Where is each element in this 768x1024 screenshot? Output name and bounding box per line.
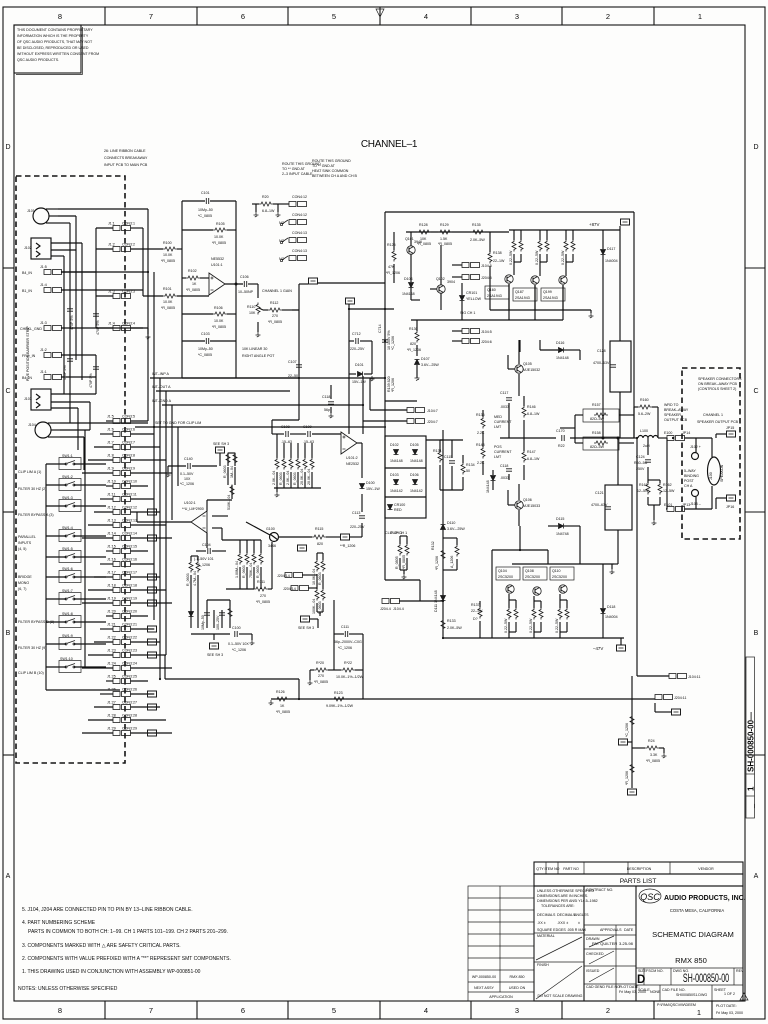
svg-text:VENDOR: VENDOR xyxy=(698,867,714,871)
svg-text:D102: D102 xyxy=(390,443,399,447)
svg-text:JP15: JP15 xyxy=(726,426,734,430)
svg-text:.XXX ±: .XXX ± xyxy=(557,921,568,925)
svg-text:C170: C170 xyxy=(556,429,565,433)
wire from C107 node down xyxy=(272,378,299,420)
svg-text:A: A xyxy=(6,873,11,880)
svg-text:2SA1943: 2SA1943 xyxy=(515,296,530,300)
svg-text:J1:7: J1:7 xyxy=(107,441,114,445)
svg-text:56p–2000V–C0G: 56p–2000V–C0G xyxy=(334,640,362,644)
svg-text:C113: C113 xyxy=(352,511,360,515)
main output wire xyxy=(500,437,634,439)
svg-text:0.22–5W: 0.22–5W xyxy=(504,618,508,633)
svg-text:SH000850S1.DWG: SH000850S1.DWG xyxy=(676,993,707,997)
ref box CTRL feed xyxy=(346,298,355,304)
svg-text:RMX 850: RMX 850 xyxy=(675,956,707,965)
svg-text:100K–.04: 100K–.04 xyxy=(312,599,316,614)
svg-text:5.6–2W: 5.6–2W xyxy=(638,412,651,416)
emitter resistor pair B xyxy=(538,240,542,252)
svg-text:CON3:4: CON3:4 xyxy=(122,322,135,326)
svg-text:SEE SH 3: SEE SH 3 xyxy=(207,653,223,657)
signal wire INT-INP A xyxy=(150,377,385,379)
diode D104 xyxy=(409,283,414,288)
diode D115 xyxy=(559,524,564,529)
resistor R102 xyxy=(182,277,209,279)
signal wire SET TO GND FOR CLIP LIM xyxy=(135,426,386,428)
supply ref box PS1-3 xyxy=(617,645,626,651)
svg-text:B1_IN: B1_IN xyxy=(22,289,32,293)
output connector E101 xyxy=(667,507,685,512)
svg-text:0.22–5W: 0.22–5W xyxy=(509,250,513,265)
svg-text:R_0603: R_0603 xyxy=(318,572,322,585)
connector J204:6 xyxy=(462,339,480,344)
approvals column xyxy=(586,888,646,994)
bottom zone tick marks xyxy=(105,1001,712,1019)
svg-text:J100: J100 xyxy=(709,472,713,480)
svg-text:0.22–5W: 0.22–5W xyxy=(561,250,565,265)
svg-text:CON3:21: CON3:21 xyxy=(122,623,137,627)
svg-text:C103: C103 xyxy=(201,332,210,336)
limiter mid resistor RI xyxy=(259,553,263,565)
svg-text:NOTES: UNLESS OTHERWISE SPECIF: NOTES: UNLESS OTHERWISE SPECIFIED xyxy=(18,986,118,992)
bridge diode D103 xyxy=(394,480,399,485)
emitter resistors Q104 xyxy=(507,608,511,620)
svg-text:C101: C101 xyxy=(201,191,210,195)
ground clip sense xyxy=(402,574,407,579)
resistor R128 xyxy=(417,230,431,234)
svg-text:5: 5 xyxy=(332,12,336,21)
transistor Q102 xyxy=(437,285,445,293)
svg-text:R157: R157 xyxy=(592,403,601,407)
svg-text:4. PART NUMBERING SCHEME: 4. PART NUMBERING SCHEME xyxy=(22,920,96,926)
svg-text:R128: R128 xyxy=(419,223,428,227)
svg-text:*R_0805: *R_0805 xyxy=(314,680,328,684)
right margin row letters xyxy=(753,144,758,880)
svg-text:2.2K: 2.2K xyxy=(477,431,485,435)
svg-text:JP16: JP16 xyxy=(726,505,734,509)
svg-text:J204:6: J204:6 xyxy=(481,340,492,344)
svg-text:FSCM NO.: FSCM NO. xyxy=(646,969,664,973)
svg-text:1N4148: 1N4148 xyxy=(402,292,415,296)
svg-text:DIMENSIONS PER ANSI Y14.5–1982: DIMENSIONS PER ANSI Y14.5–1982 xyxy=(537,899,598,903)
svg-text:J104.4: J104.4 xyxy=(393,607,404,611)
svg-text:CON4:12: CON4:12 xyxy=(292,213,307,217)
svg-text:INT–OUT A: INT–OUT A xyxy=(152,385,171,389)
NPN transistor Q104 xyxy=(506,585,514,593)
svg-text:NC: NC xyxy=(279,257,285,261)
PNP transistor Q187 xyxy=(531,276,539,284)
PNP transistor Q160 xyxy=(505,275,513,283)
svg-text:MED: MED xyxy=(494,415,502,419)
resistor R112 xyxy=(282,309,292,311)
svg-text:CON3:10: CON3:10 xyxy=(122,480,137,484)
svg-text:20.0K–.04: 20.0K–.04 xyxy=(307,469,311,485)
svg-text:U101:1: U101:1 xyxy=(211,263,223,267)
input terminal J1:5 xyxy=(44,270,62,275)
svg-text:2. COMPONENTS WITH VALUE PREFI: 2. COMPONENTS WITH VALUE PREFIXED WITH A… xyxy=(22,956,231,962)
svg-text:R123: R123 xyxy=(334,691,343,695)
option link box row 577 xyxy=(148,574,157,580)
svg-text:2SA1943: 2SA1943 xyxy=(487,294,502,298)
op-amp U101:2 xyxy=(341,432,357,454)
base drive rail xyxy=(512,564,614,569)
binding post J102 xyxy=(685,438,713,460)
limiter aux wires xyxy=(207,500,232,548)
switch SW1-7 body outline xyxy=(59,593,81,605)
svg-text:R_0603: R_0603 xyxy=(186,573,190,586)
svg-text:6.8–1W: 6.8–1W xyxy=(262,209,275,213)
svg-text:D115: D115 xyxy=(556,517,564,521)
PNP transistor Q199 xyxy=(559,276,567,284)
ground ref R20 wire xyxy=(252,204,289,212)
ground routing note 1 xyxy=(282,162,321,176)
svg-text:POST: POST xyxy=(684,479,695,483)
svg-text:3.6V–.25W: 3.6V–.25W xyxy=(421,363,439,367)
svg-text:C104: C104 xyxy=(202,543,211,547)
switch SW1-4 body outline xyxy=(59,530,81,542)
svg-text:Q160: Q160 xyxy=(487,288,496,292)
svg-text:R20: R20 xyxy=(262,195,269,199)
svg-text:INFORMATION WHICH IS THE PROPE: INFORMATION WHICH IS THE PROPERTY xyxy=(17,34,89,38)
svg-text:R130: R130 xyxy=(409,327,418,331)
signal wire INT-GND A xyxy=(162,404,363,406)
svg-text:J1:22: J1:22 xyxy=(107,636,116,640)
svg-text:CONNECTS BREAKAWAY: CONNECTS BREAKAWAY xyxy=(104,156,148,160)
svg-text:CON3:1: CON3:1 xyxy=(122,222,135,226)
svg-text:C106: C106 xyxy=(240,275,249,279)
svg-text:INT–INP A: INT–INP A xyxy=(152,372,170,376)
parts list header row xyxy=(534,862,743,874)
svg-text:*R_1206: *R_1206 xyxy=(625,771,629,785)
block top rail xyxy=(385,211,634,213)
ribbon connector J1:15/CON3:15 xyxy=(113,549,131,554)
ribbon connector J1:28/CON3:28 xyxy=(113,718,131,723)
svg-text:FRO_IN: FRO_IN xyxy=(22,354,36,358)
svg-text:TOLERANCES ARE:: TOLERANCES ARE: xyxy=(541,904,575,908)
svg-text:1N4148: 1N4148 xyxy=(390,459,403,463)
svg-text:4: 4 xyxy=(424,1006,428,1015)
resistor R20 xyxy=(259,202,273,206)
label box Q199 2SA1943 xyxy=(541,288,565,301)
svg-text:D100: D100 xyxy=(366,481,375,485)
connector J1:1/CON3:1 xyxy=(113,226,131,231)
resistor R115 xyxy=(312,535,326,539)
svg-text:CR100: CR100 xyxy=(394,503,405,507)
svg-text:1.5K: 1.5K xyxy=(440,237,448,241)
svg-text:CON4:13: CON4:13 xyxy=(292,231,307,235)
resistor R138 xyxy=(488,252,492,264)
svg-text:SPEAKON: SPEAKON xyxy=(720,464,724,482)
svg-text:QSC AUDIO PRODUCTS.: QSC AUDIO PRODUCTS. xyxy=(17,58,59,62)
svg-text:.XX ±: .XX ± xyxy=(537,921,546,925)
svg-text:1N4148: 1N4148 xyxy=(410,459,423,463)
limiter resistor RC xyxy=(230,485,234,497)
svg-text:C117: C117 xyxy=(500,391,508,395)
svg-text:CURRENT: CURRENT xyxy=(494,450,512,454)
wires to J104:7 xyxy=(363,376,407,434)
svg-text:ROUTE THIS GROUND: ROUTE THIS GROUND xyxy=(312,159,351,163)
svg-text:J1:8: J1:8 xyxy=(107,454,114,458)
switch SW1-8 body outline xyxy=(59,616,81,628)
ref box mid xyxy=(619,739,628,745)
svg-text:820: 820 xyxy=(410,342,416,346)
svg-text:*R_0805: *R_0805 xyxy=(402,555,406,569)
left margin row ticks xyxy=(3,268,14,755)
svg-text:CON3:2: CON3:2 xyxy=(122,243,135,247)
svg-text:PARTS IN COMMON TO BOTH CH: 1–: PARTS IN COMMON TO BOTH CH: 1–99. CH 1 P… xyxy=(28,929,228,935)
svg-text:G100: G100 xyxy=(266,527,275,531)
svg-text:CON3:28: CON3:28 xyxy=(122,714,137,718)
connector J204:4 xyxy=(382,599,400,604)
svg-text:APPROVALS: APPROVALS xyxy=(600,928,622,932)
network resistor RN1 xyxy=(275,458,279,470)
svg-text:INPUTS: INPUTS xyxy=(18,541,32,545)
diode D117 xyxy=(601,250,606,255)
svg-text:D118: D118 xyxy=(607,605,615,609)
svg-text:PAT QUILTER: PAT QUILTER xyxy=(592,941,617,946)
limiter resistor RA xyxy=(226,453,230,465)
zobel C124 xyxy=(647,438,649,480)
svg-text:22–1W: 22–1W xyxy=(493,259,505,263)
shunt resistor network xyxy=(274,434,321,488)
clip sense resistor 2 xyxy=(405,544,409,556)
limiter mid resistor RG xyxy=(245,553,249,565)
emitter resistors Q110 xyxy=(558,608,562,620)
svg-text:C118: C118 xyxy=(500,464,508,468)
bus vertical 4 xyxy=(165,391,167,655)
svg-text:Q102: Q102 xyxy=(436,277,445,281)
output connector E100 xyxy=(667,436,685,441)
svg-text:U101:2: U101:2 xyxy=(346,456,358,460)
VCA G100 xyxy=(270,533,279,542)
svg-text:DATE: DATE xyxy=(624,928,634,932)
base rail wire xyxy=(406,232,509,246)
svg-text:2.0K–5W: 2.0K–5W xyxy=(470,238,485,242)
svg-text:J103 –: J103 – xyxy=(690,502,701,506)
svg-text:COSTA MESA, CALIFORNIA: COSTA MESA, CALIFORNIA xyxy=(670,908,725,913)
svg-text:CHANNEL–1: CHANNEL–1 xyxy=(361,139,418,150)
svg-text:DIMENSIONS ARE IN INCHES.: DIMENSIONS ARE IN INCHES. xyxy=(537,894,588,898)
option link box row 642 xyxy=(148,639,157,645)
proprietary notice box xyxy=(14,25,99,75)
aux vertical resistors right xyxy=(315,560,319,572)
jumper JP16 xyxy=(727,495,736,501)
capacitor C111 xyxy=(345,631,347,637)
svg-text:J1:13: J1:13 xyxy=(107,519,116,523)
svg-text:RED: RED xyxy=(394,508,402,512)
svg-text:J104: J104 xyxy=(28,423,36,427)
svg-text:1K: 1K xyxy=(192,282,197,286)
svg-text:J1:9: J1:9 xyxy=(107,467,114,471)
wire J204:4 to feedback xyxy=(399,600,443,602)
NPN transistor Q108 xyxy=(533,587,541,595)
connector J204/14 a xyxy=(285,573,303,578)
svg-text:1N4148: 1N4148 xyxy=(486,480,490,493)
svg-text:OUTPUT PCB: OUTPUT PCB xyxy=(664,418,688,422)
svg-text:R*20: R*20 xyxy=(316,661,324,665)
label box Q160 2SA1943 xyxy=(485,286,509,299)
svg-text:PART NO: PART NO xyxy=(563,867,579,871)
svg-text:*R_0805: *R_0805 xyxy=(646,759,660,763)
svg-text:3.3K: 3.3K xyxy=(650,753,658,757)
svg-text:J1:5: J1:5 xyxy=(40,265,47,269)
label box Q108 2SC5200 xyxy=(523,567,547,580)
ground hook 1 xyxy=(254,212,259,217)
input terminal J1:3 xyxy=(44,326,62,331)
top zone tick marks xyxy=(105,7,654,25)
input terminal J1:4 xyxy=(44,288,62,293)
svg-text:C111: C111 xyxy=(341,625,349,629)
CTRL ref box xyxy=(341,534,350,540)
bus vertical 1 xyxy=(147,209,149,421)
svg-text:CLIP LIM B (10): CLIP LIM B (10) xyxy=(18,671,44,675)
svg-text:2.2K: 2.2K xyxy=(477,461,485,465)
connector J1:4/CON3:4 xyxy=(113,326,131,331)
svg-text:2: 2 xyxy=(606,1006,610,1015)
switch SW1-1 xyxy=(65,461,75,466)
diode D114 xyxy=(491,476,496,481)
filter cap C128 xyxy=(610,341,631,392)
svg-text:J104:11: J104:11 xyxy=(688,675,701,679)
svg-text:YELLOW: YELLOW xyxy=(466,297,482,301)
svg-text:CHECKED: CHECKED xyxy=(586,952,604,956)
long feedback wire lower xyxy=(271,698,655,700)
limiter resistor RB xyxy=(233,453,237,465)
svg-text:B: B xyxy=(6,630,11,637)
svg-text:1K: 1K xyxy=(280,704,285,708)
svg-text:0.1–50V: 0.1–50V xyxy=(180,472,194,476)
svg-text:R138: R138 xyxy=(493,251,502,255)
ribbon connector J1:11/CON3:11 xyxy=(113,497,131,502)
svg-text:J1:15: J1:15 xyxy=(107,545,116,549)
svg-text:REV: REV xyxy=(736,969,744,973)
svg-text:SQUARE EDGES .005 R MAX: SQUARE EDGES .005 R MAX xyxy=(537,928,587,932)
svg-text:R115: R115 xyxy=(315,527,323,531)
svg-text:1M–.04: 1M–.04 xyxy=(230,466,234,478)
svg-text:J1:12: J1:12 xyxy=(107,506,116,510)
bottom zone numbers xyxy=(58,1006,701,1017)
svg-text:CLIP LIM A (1): CLIP LIM A (1) xyxy=(18,470,41,474)
connector J204/14 b xyxy=(291,586,309,591)
tolerance column xyxy=(537,889,598,967)
svg-text:470P 5%: 470P 5% xyxy=(70,315,74,330)
ground after R24 xyxy=(662,753,667,758)
svg-text:.0033: .0033 xyxy=(500,405,509,409)
svg-text:2SC5200: 2SC5200 xyxy=(525,575,540,579)
svg-text:R133: R133 xyxy=(447,619,456,623)
input filter cap C4 xyxy=(93,367,99,369)
svg-text:J204:11: J204:11 xyxy=(674,696,687,700)
svg-text:1N4142: 1N4142 xyxy=(410,489,423,493)
driver Q105 xyxy=(515,365,523,373)
svg-text:6.8–1W: 6.8–1W xyxy=(527,412,540,416)
svg-text:1N4142: 1N4142 xyxy=(390,489,403,493)
svg-text:J104:7: J104:7 xyxy=(427,409,438,413)
zobel ground xyxy=(652,520,657,525)
VCA control wire xyxy=(246,522,312,589)
svg-text:J1:26: J1:26 xyxy=(107,688,116,692)
svg-text:*R_0805: *R_0805 xyxy=(276,710,290,714)
wire block lower left xyxy=(385,400,417,402)
svg-text:12–5W: 12–5W xyxy=(637,489,649,493)
NPN transistor Q110 xyxy=(559,585,567,593)
svg-text:4700–63V: 4700–63V xyxy=(591,503,608,507)
svg-text:J204/14: J204/14 xyxy=(277,574,290,578)
ribbon connector J1:17/CON3:17 xyxy=(113,575,131,580)
svg-text:1N4004: 1N4004 xyxy=(605,615,618,619)
svg-text:BINDING: BINDING xyxy=(684,474,699,478)
svg-text:BRIDGE: BRIDGE xyxy=(18,575,32,579)
input terminal J1:1 xyxy=(44,375,62,380)
svg-text:J104:5: J104:5 xyxy=(481,330,492,334)
ribbon connector J1:26/CON3:26 xyxy=(113,692,131,697)
svg-text:7: 7 xyxy=(149,1006,153,1015)
svg-text:FILTER 30 HZ (2): FILTER 30 HZ (2) xyxy=(18,487,46,491)
svg-text:1. THIS DRAWING USED IN CONJUN: 1. THIS DRAWING USED IN CONJUNCTION WITH… xyxy=(22,969,201,975)
resistor R105 xyxy=(182,229,236,231)
svg-text:C128: C128 xyxy=(597,349,606,353)
connector J204:7 xyxy=(407,419,425,424)
aux vertical resistor 3 xyxy=(315,589,319,601)
limiter mid resistor RH xyxy=(252,553,256,565)
switch SW1-10 xyxy=(65,664,75,669)
svg-text:0.22–5W: 0.22–5W xyxy=(535,250,539,265)
diode D110 xyxy=(441,525,446,530)
ribbon row stub wires right xyxy=(131,421,173,733)
svg-text:DECIMALS: DECIMALS xyxy=(537,913,556,917)
SEE SH3 box upper xyxy=(216,447,225,453)
bias transistor resistor xyxy=(455,545,459,557)
capacitor C117 xyxy=(506,398,512,400)
svg-text:R100: R100 xyxy=(163,241,172,245)
svg-text:J1:28: J1:28 xyxy=(107,714,116,718)
ribbon connector J1:23/CON3:23 xyxy=(113,653,131,658)
svg-text:R24: R24 xyxy=(648,739,655,743)
svg-text:22–1W: 22–1W xyxy=(471,609,483,613)
svg-text:4: 4 xyxy=(424,12,428,21)
label box Q110 2SC5200 xyxy=(550,567,574,580)
svg-text:CAD FILE NO.: CAD FILE NO. xyxy=(662,988,686,992)
capacitor C712 xyxy=(349,341,372,374)
wire CON3:2 to R100 xyxy=(131,248,164,250)
svg-text:R_0603: R_0603 xyxy=(242,565,246,578)
LED CR101 xyxy=(460,296,465,301)
svg-text:0.22–5W: 0.22–5W xyxy=(555,618,559,633)
front-end resistor R125 xyxy=(392,250,396,262)
limiter lower resistor RD xyxy=(189,561,193,573)
sense divider vertical xyxy=(631,676,633,788)
svg-text:POS: POS xyxy=(494,445,502,449)
SEE SH 3 ref box xyxy=(301,616,310,622)
svg-text:C121: C121 xyxy=(595,491,604,495)
bridge diode D102 xyxy=(394,450,399,455)
svg-text:CON3:24: CON3:24 xyxy=(122,662,137,666)
svg-text:*C_1206: *C_1206 xyxy=(232,648,246,652)
svg-text:R*22: R*22 xyxy=(344,661,352,665)
svg-text:2SA1943: 2SA1943 xyxy=(543,296,558,300)
svg-text:RMX 850: RMX 850 xyxy=(510,975,525,979)
svg-text:0.1–50V 10X: 0.1–50V 10X xyxy=(228,642,249,646)
bias chain C115 xyxy=(449,461,455,463)
network resistor RN2 xyxy=(282,458,286,470)
C111 sub-network xyxy=(310,600,363,699)
ref box bottom xyxy=(628,789,637,795)
svg-text:R135: R135 xyxy=(472,223,481,227)
svg-text:15V–1W: 15V–1W xyxy=(366,487,380,491)
svg-text:1: 1 xyxy=(698,12,702,21)
resistor R101 xyxy=(143,295,209,297)
svg-text:P:\PAM\QSC\VW\DEEM: P:\PAM\QSC\VW\DEEM xyxy=(657,1003,696,1007)
ribbon connector J1:12/CON3:12 xyxy=(113,510,131,515)
